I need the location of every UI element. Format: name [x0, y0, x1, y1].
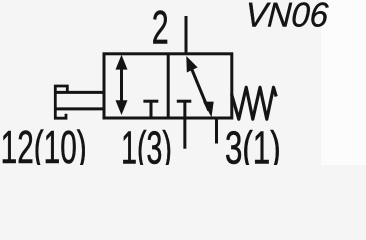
svg-text:3(1): 3(1) [225, 122, 281, 165]
svg-text:1(3): 1(3) [121, 123, 172, 165]
svg-text:VN06: VN06 [244, 0, 329, 35]
svg-text:12(10): 12(10) [1, 123, 87, 165]
svg-text:2: 2 [152, 2, 169, 54]
